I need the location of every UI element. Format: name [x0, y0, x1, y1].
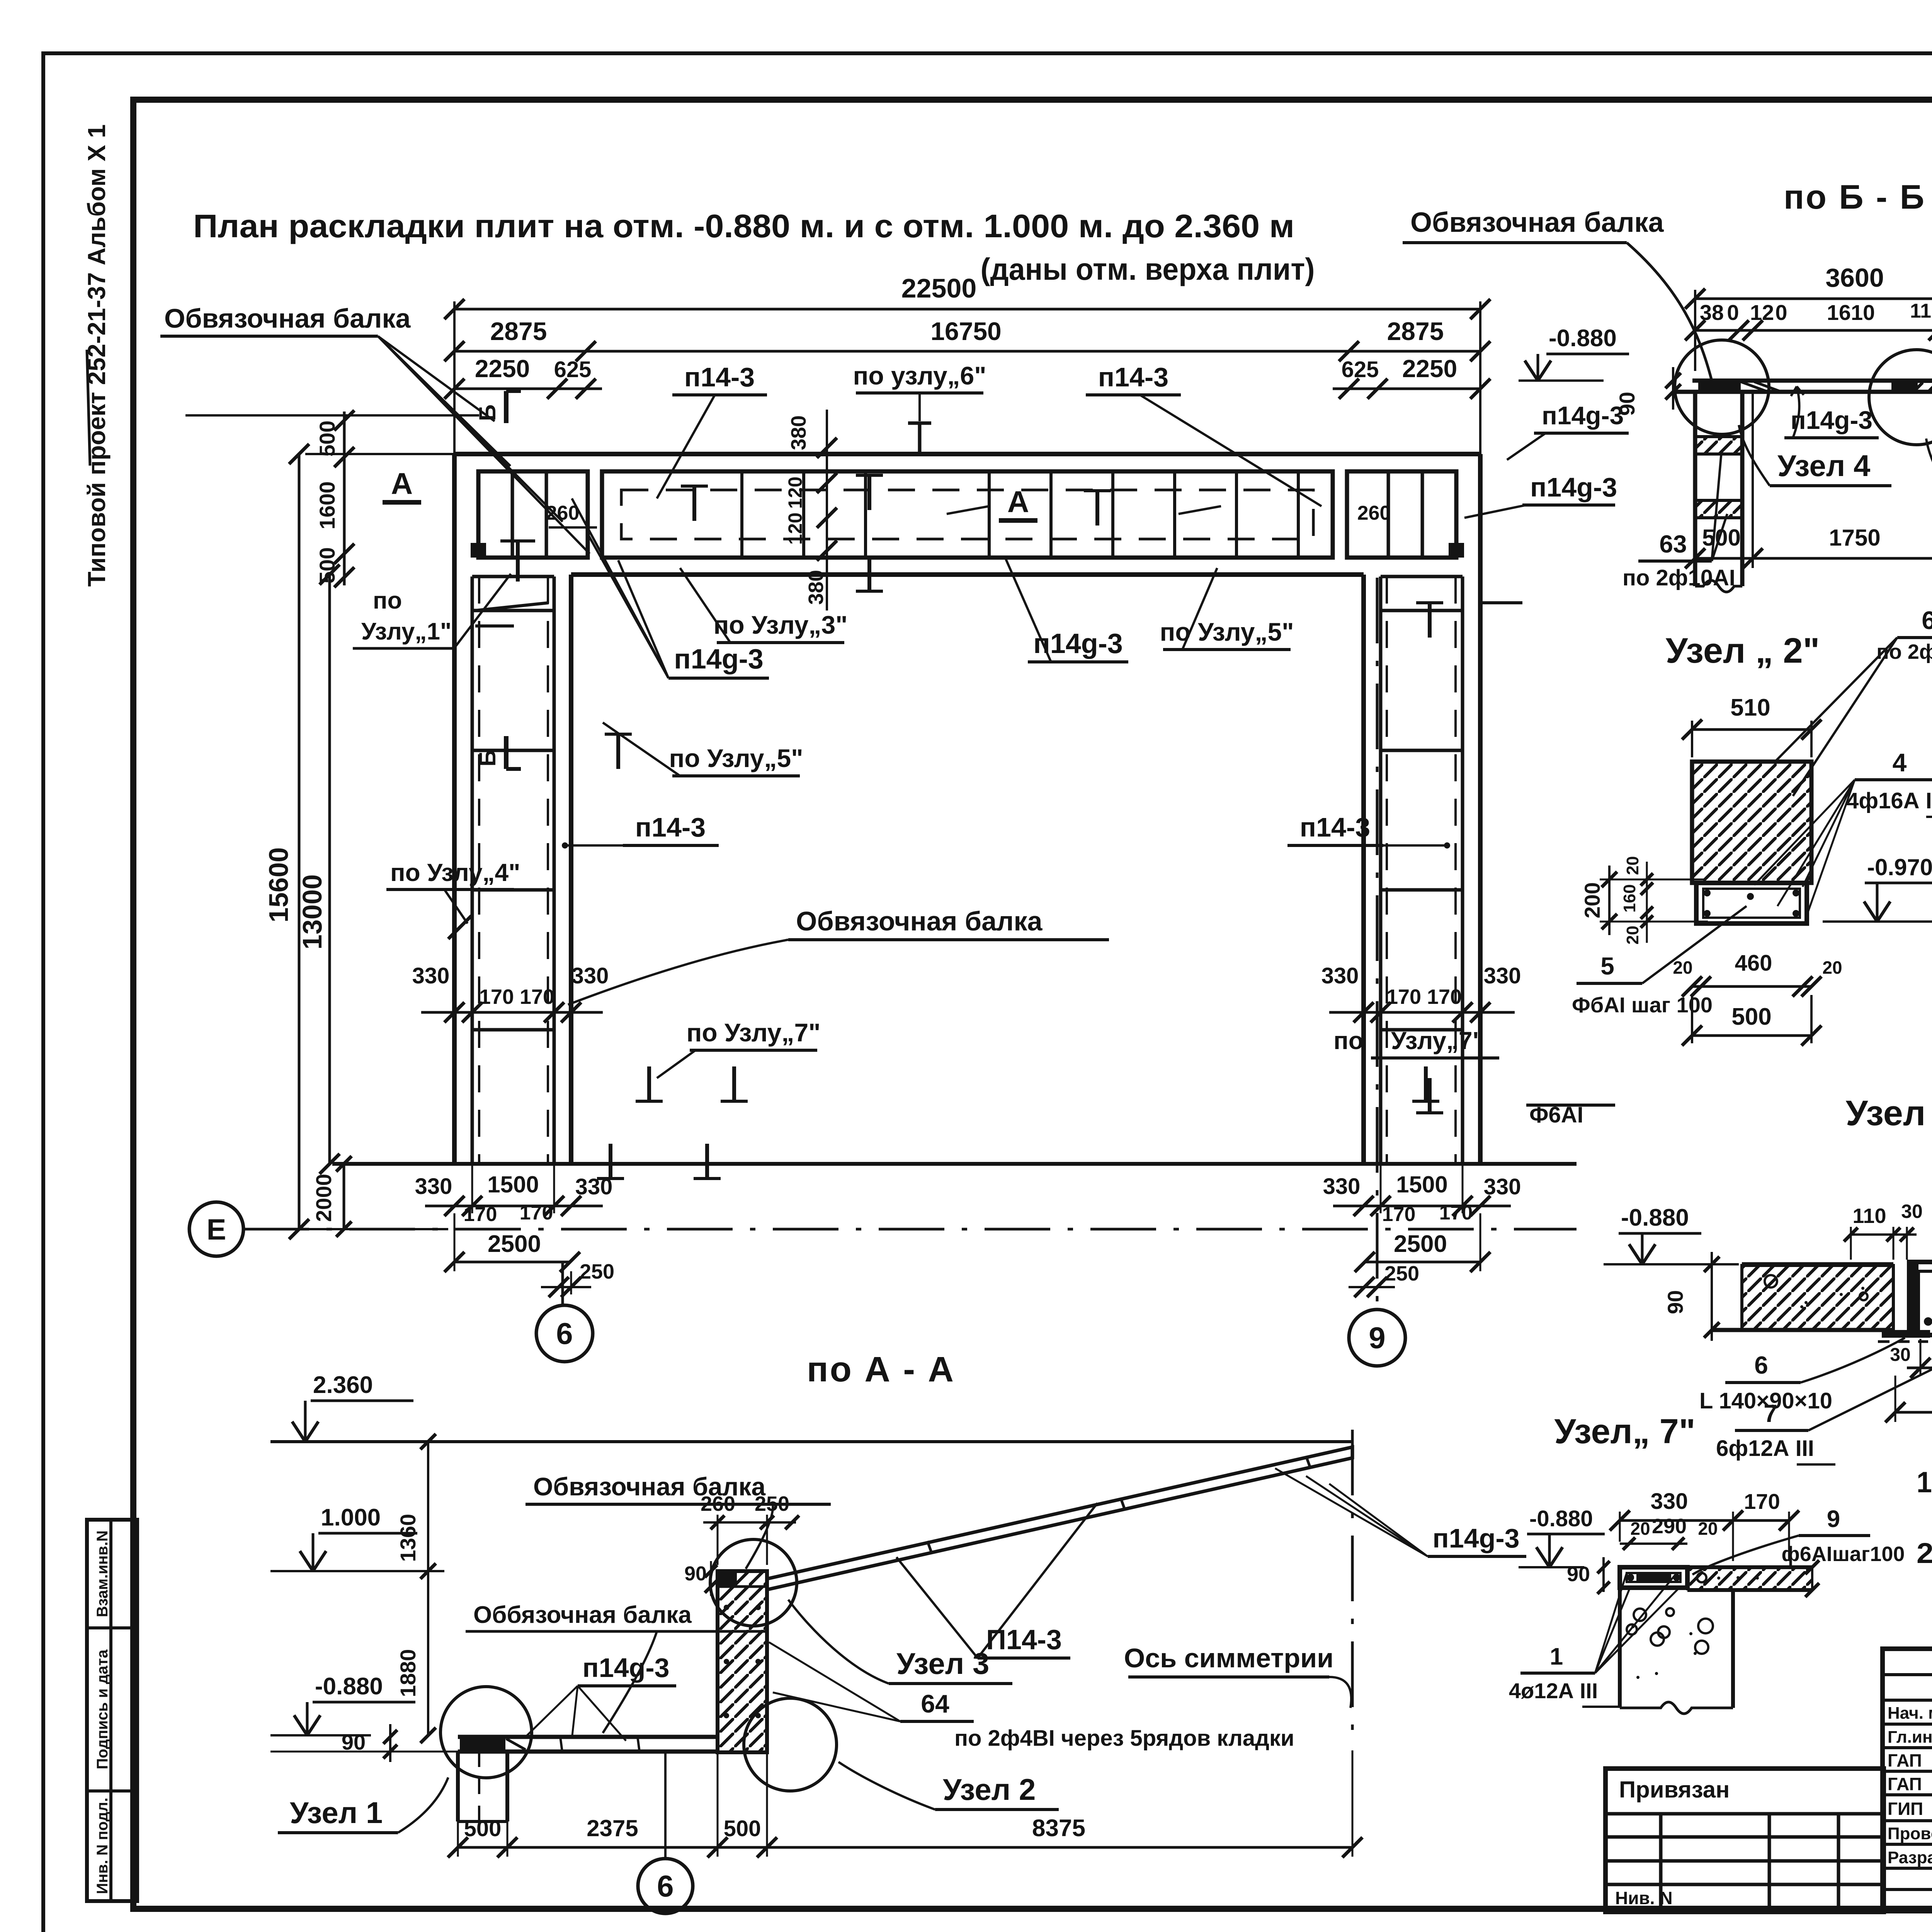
axis bubble E: [189, 1202, 243, 1256]
svg-text:6: 6: [556, 1316, 573, 1350]
svg-text:6ф12А III: 6ф12А III: [1716, 1436, 1814, 1461]
узел 7 dims 20-290-20: [1620, 1515, 1718, 1550]
svg-text:1500: 1500: [487, 1172, 539, 1197]
plan dim 2000 left: [311, 1156, 352, 1237]
plan dim 22500: [444, 273, 1490, 454]
svg-text:п14g-3: п14g-3: [1791, 406, 1872, 434]
узел 7 fraction 9 / ф6АIшаг100: [1692, 1506, 1905, 1575]
axis bubble 6 under А-А: [638, 1752, 693, 1913]
svg-text:Узел 4: Узел 4: [1777, 449, 1870, 483]
svg-text:4: 4: [1893, 748, 1907, 777]
svg-text:п14-3: п14-3: [1098, 362, 1168, 392]
примечание 2: [1917, 1537, 1932, 1569]
узел 5 title: [1846, 1094, 1932, 1133]
plan dim 2875-16750-2875: [444, 317, 1490, 361]
узел 2 left dims: [1580, 856, 1708, 945]
plan bottom dims left 330-1500-330: [415, 1164, 613, 1226]
А-А label Ось симметрии: [1124, 1643, 1351, 1708]
svg-text:1.000: 1.000: [321, 1504, 381, 1531]
svg-text:3600: 3600: [1825, 263, 1884, 293]
plan left extension line: [185, 414, 479, 417]
label Обвязочная балка top-left: [160, 303, 590, 554]
label по Узлу 5 right2: [1160, 568, 1294, 650]
svg-text:20: 20: [1630, 1519, 1650, 1539]
узел 4 circle on Б-Б: [1675, 340, 1769, 434]
svg-text:Б: Б: [474, 750, 500, 766]
Б-Б label Узел 4: [1739, 425, 1891, 486]
узел 2 fraction 64: [1774, 606, 1932, 796]
А-А label Узел 1: [278, 1777, 448, 1833]
label по узлу 6: [853, 361, 986, 456]
узел 3 fraction 64 lower: [1932, 889, 1932, 1033]
svg-text:63: 63: [1659, 530, 1687, 558]
svg-text:20: 20: [1673, 957, 1692, 978]
label по Узлу 3: [680, 568, 847, 643]
label Обвязочная балка mid: [568, 906, 1109, 1005]
svg-text:по узлу„6": по узлу„6": [853, 361, 986, 390]
Б-Б wall below: [1695, 392, 1742, 592]
svg-text:120: 120: [784, 476, 806, 509]
svg-text:5: 5: [1600, 952, 1614, 980]
section mark Б top: [474, 391, 521, 423]
svg-text:П14-3: П14-3: [986, 1624, 1062, 1655]
svg-text:по Узлу„3": по Узлу„3": [714, 611, 848, 639]
svg-text:200: 200: [1580, 882, 1604, 918]
svg-text:330: 330: [415, 1174, 452, 1199]
label по Узлу 5 left: [603, 723, 803, 776]
plan left dim 13000: [297, 565, 340, 1174]
узел 7 slab right: [1687, 1560, 1819, 1597]
svg-text:0: 0: [1727, 300, 1739, 325]
svg-text:Узел 2: Узел 2: [943, 1772, 1036, 1806]
svg-text:0: 0: [1775, 300, 1787, 325]
узел 5 dims 110-30: [1844, 1201, 1923, 1260]
svg-text:20: 20: [1822, 957, 1842, 978]
svg-text:500: 500: [1731, 1003, 1771, 1030]
А-А top line: [270, 1440, 1352, 1443]
А-А dim 1360: [396, 1434, 436, 1579]
svg-text:Взам.инв.N: Взам.инв.N: [94, 1531, 111, 1617]
svg-text:330: 330: [412, 963, 450, 988]
А-А label Обвязочная балка 2: [466, 1602, 769, 1733]
side text: Типовой проект 252-21-37 Альбом X1: [83, 124, 111, 587]
svg-text:64: 64: [921, 1689, 949, 1718]
svg-text:330: 330: [1323, 1174, 1361, 1199]
svg-text:п14g-3: п14g-3: [1542, 401, 1624, 430]
svg-text:Узел 3: Узел 3: [896, 1646, 989, 1680]
А-А dims 260-250: [701, 1492, 799, 1565]
svg-text:500: 500: [724, 1816, 761, 1841]
svg-text:2375: 2375: [587, 1815, 638, 1841]
svg-text:План раскладки плит на отм: План раскладки плит на отм. -0.880 м. и …: [193, 208, 1294, 244]
svg-text:1: 1: [1550, 1643, 1563, 1670]
svg-text:по Б - Б: по Б - Б: [1784, 178, 1926, 216]
А-А axis of symmetry line: [1351, 1430, 1354, 1743]
svg-text:Узел„ 7": Узел„ 7": [1554, 1412, 1695, 1451]
узел 5 left slab: [1712, 1264, 1893, 1330]
А-А left column below slab: [458, 1752, 507, 1821]
main title line 1: [193, 208, 1294, 244]
svg-text:ГАП: ГАП: [1888, 1774, 1922, 1794]
svg-text:по Узлу„5": по Узлу„5": [1160, 617, 1294, 646]
узел 5 dim 90 left: [1663, 1252, 1719, 1341]
label п14-3 right column: [1287, 812, 1450, 849]
узел 2 beam box: [1696, 883, 1807, 923]
plan right column mid dims 330-170-170-330: [1321, 963, 1521, 1022]
plan dim 2500 right: [1355, 1213, 1490, 1272]
svg-text:Оббязочная балка: Оббязочная балка: [473, 1602, 692, 1628]
svg-text:260: 260: [546, 502, 580, 524]
примечание 1 line 1: [1917, 1466, 1932, 1499]
plan left dim 15600: [264, 444, 454, 1239]
cell label Подпись и дата: [94, 1649, 111, 1769]
plan: left corner beam block: [478, 471, 588, 558]
svg-text:ф6АIшаг100: ф6АIшаг100: [1782, 1543, 1905, 1566]
А-А bottom dims: [448, 1750, 1362, 1857]
А-А elev 1.000: [300, 1504, 417, 1571]
svg-text:по Узлу„7": по Узлу„7": [687, 1018, 821, 1047]
plan dim 2500 left: [444, 1213, 580, 1272]
узел 5 fraction 6 / L140x90x10: [1699, 1338, 1905, 1413]
svg-text:2500: 2500: [1394, 1231, 1447, 1257]
svg-text:380: 380: [787, 415, 810, 450]
узел 3 circle on А-А: [710, 1539, 797, 1626]
section mark Б lower: [474, 736, 521, 769]
cell label Инв.N подл.: [94, 1798, 111, 1894]
А-А label Узел 2: [838, 1762, 1059, 1810]
узел 2 dims 20-460-20: [1673, 951, 1842, 997]
svg-text:170: 170: [1382, 1203, 1416, 1226]
узел 2 circle on А-А: [744, 1698, 837, 1791]
svg-text:ГИП: ГИП: [1888, 1799, 1923, 1819]
svg-text:Проверил: Проверил: [1888, 1824, 1932, 1843]
svg-text:п14-3: п14-3: [1300, 812, 1370, 842]
svg-text:30: 30: [1890, 1345, 1910, 1365]
plan: joint strip right 625: [1333, 471, 1347, 558]
svg-text:(даны отм. верха плит): (даны отм. верха плит): [981, 252, 1315, 286]
svg-text:Инв. N подл.: Инв. N подл.: [94, 1798, 111, 1894]
axis bubble 6 under plan: [536, 1262, 593, 1362]
svg-text:2875: 2875: [1387, 317, 1444, 345]
svg-text:510: 510: [1730, 694, 1770, 721]
А-А label п14g-3 left: [526, 1653, 676, 1741]
svg-text:п14g-3: п14g-3: [674, 644, 764, 675]
plan: bottom wall line: [332, 1162, 1577, 1166]
svg-text:22500: 22500: [901, 273, 977, 303]
А-А slab: [458, 1737, 718, 1752]
left form cells box: [87, 1520, 137, 1901]
svg-text:по: по: [1333, 1027, 1364, 1054]
узел 7 dims 330-170: [1610, 1489, 1799, 1561]
узел 2 dim 510: [1682, 694, 1821, 757]
plan dim 2250-625 left: [444, 355, 602, 399]
svg-text:250: 250: [755, 1492, 789, 1515]
узел 2 elev -0.970: [1823, 854, 1932, 922]
svg-text:170: 170: [464, 1203, 497, 1226]
узел 7 dim 90: [1567, 1557, 1610, 1594]
plan: wall inner line below band: [571, 572, 1364, 577]
svg-text:2. Выборка стали дана на: 2. Выборка стали дана на чертеже КС1-35: [1917, 1537, 1932, 1569]
svg-text:А: А: [391, 466, 413, 500]
узел 7 elev -0.880: [1519, 1506, 1605, 1567]
узел 7 column: [1620, 1588, 1733, 1714]
А-А label Узел 3: [788, 1600, 1012, 1684]
plan dim 250 left: [541, 1260, 614, 1297]
svg-text:460: 460: [1735, 951, 1772, 976]
plan: right corner beam block: [1347, 471, 1456, 558]
plan left dims 500-1600-500: [315, 410, 354, 587]
svg-text:64: 64: [1922, 606, 1932, 634]
svg-text:120: 120: [784, 512, 806, 544]
plan anchor symbols in band: [597, 486, 1443, 1179]
А-А label Обвязочная балка 1: [526, 1472, 831, 1569]
svg-text:30: 30: [1901, 1201, 1923, 1222]
svg-text:20: 20: [1698, 1519, 1718, 1539]
svg-text:1750: 1750: [1829, 525, 1880, 551]
section mark А mid: [999, 485, 1037, 520]
Б-Б label Узел 5: [1926, 439, 1932, 489]
А-А dim 90 left: [270, 1724, 458, 1762]
plan arrows in corner blocks: [475, 506, 1522, 626]
узел 7 beam box: [1620, 1567, 1687, 1588]
svg-text:2.360: 2.360: [313, 1372, 373, 1398]
svg-text:по 2ф4ВI через 5рядов: по 2ф4ВI через 5рядов: [1876, 640, 1932, 663]
А-А dim 90 at column top: [684, 1561, 717, 1596]
svg-text:-0.880: -0.880: [1529, 1506, 1593, 1531]
Б-Б dim chain 380-120-1610-110-30-610-740: [1685, 298, 1932, 340]
svg-text:250: 250: [1384, 1262, 1419, 1285]
label п14g-3 right outside upper: [1507, 401, 1629, 460]
А-А label П14-3: [896, 1503, 1097, 1658]
Б-Б dim 3600: [1685, 263, 1932, 371]
svg-text:Разработ: Разработ: [1888, 1848, 1932, 1867]
svg-text:9: 9: [1827, 1506, 1840, 1532]
signature table texts: [1888, 1704, 1932, 1867]
svg-text:625: 625: [1342, 357, 1379, 382]
svg-text:6: 6: [657, 1869, 673, 1903]
svg-text:Привязан: Привязан: [1619, 1777, 1730, 1803]
узел 5 circle on Б-Б: [1869, 350, 1932, 445]
Б-Б slab: [1673, 371, 1932, 401]
svg-text:2000: 2000: [311, 1174, 336, 1222]
svg-text:7: 7: [1764, 1400, 1777, 1427]
svg-text:п14-3: п14-3: [635, 812, 706, 842]
label п14g-3 below corner: [572, 498, 769, 678]
svg-text:260: 260: [701, 1492, 735, 1515]
узел 7 fraction 1 / 4ф12АIII: [1509, 1573, 1681, 1707]
svg-text:по Узлу„4": по Узлу„4": [390, 859, 520, 886]
А-А sloped plate: [767, 1447, 1352, 1590]
svg-text:по Узлу„5": по Узлу„5": [669, 744, 803, 772]
узел 5 plate section: [1907, 1262, 1932, 1335]
svg-text:-0.970: -0.970: [1867, 854, 1932, 880]
svg-text:110: 110: [1852, 1204, 1886, 1228]
label п14-3 left column: [562, 812, 719, 849]
svg-text:90: 90: [1663, 1290, 1687, 1314]
А-А elev 2.360: [270, 1372, 413, 1442]
svg-text:20: 20: [1623, 856, 1642, 875]
узел 5 angle L140x90x10: [1878, 1330, 1930, 1342]
svg-text:500: 500: [315, 547, 339, 583]
svg-text:290: 290: [1652, 1515, 1687, 1538]
привязан table: [1605, 1769, 1884, 1912]
label по Узлу 7 left: [636, 1018, 820, 1101]
svg-text:п14g-3: п14g-3: [1530, 472, 1617, 502]
А-А dim 1880: [396, 1571, 436, 1743]
узел 5 elev -0.880 left: [1604, 1204, 1739, 1264]
svg-text:12: 12: [1750, 300, 1774, 325]
plan rotated dims 380/120/120/380: [784, 410, 883, 611]
А-А central column: [718, 1571, 767, 1752]
svg-text:500: 500: [464, 1816, 502, 1841]
svg-text:1360: 1360: [396, 1514, 420, 1562]
plan: right column wall: [1364, 454, 1480, 1164]
узел 2 fraction 4 / 4Ф16АIII: [1754, 748, 1932, 920]
узел 5 dim 550-30: [1890, 1335, 1932, 1378]
svg-text:1500: 1500: [1396, 1172, 1447, 1197]
svg-text:по 2ф4ВI через 5рядов кладки: по 2ф4ВI через 5рядов кладки: [954, 1726, 1294, 1751]
plan dim 625-2250 right: [1333, 355, 1490, 399]
узел 2 fraction 5 / ФбАI шаг 100: [1572, 906, 1747, 1017]
svg-text:2250: 2250: [1402, 355, 1457, 383]
svg-text:Узлу„7": Узлу„7": [1391, 1027, 1484, 1054]
svg-text:1600: 1600: [315, 481, 339, 530]
svg-text:Узлу„1": Узлу„1": [361, 618, 451, 645]
svg-text:500: 500: [315, 420, 339, 456]
label по Узлу 7 right: [1333, 1027, 1499, 1113]
svg-text:13000: 13000: [297, 874, 327, 950]
А-А title: [807, 1350, 955, 1389]
label п14-3 band right: [1086, 362, 1321, 506]
svg-text:1610: 1610: [1827, 300, 1875, 325]
section mark А left: [383, 466, 421, 502]
svg-text:-0.880: -0.880: [1549, 325, 1617, 352]
svg-text:А: А: [1007, 485, 1029, 519]
svg-text:Обвязочная балка: Обвязочная балка: [164, 303, 411, 333]
plan dim 250 right: [1349, 1262, 1419, 1297]
svg-text:по: по: [373, 587, 402, 614]
svg-text:250: 250: [580, 1260, 614, 1283]
svg-text:8375: 8375: [1032, 1815, 1085, 1842]
svg-text:Нач. маст.: Нач. маст.: [1888, 1704, 1932, 1723]
svg-text:-0.880: -0.880: [1621, 1204, 1689, 1231]
svg-text:90: 90: [1567, 1563, 1590, 1586]
plan bottom dims right 330-1500-330: [1323, 1164, 1521, 1226]
svg-text:16750: 16750: [930, 317, 1002, 345]
А-А ref line 1.000: [270, 1570, 444, 1572]
узел 2 dim 500: [1682, 995, 1821, 1046]
svg-text:170: 170: [1439, 1202, 1473, 1224]
label по Узлу 1: [353, 541, 535, 648]
svg-text:20: 20: [1623, 926, 1642, 945]
Б-Б elev -0.880: [1519, 325, 1629, 381]
svg-text:Узел „ 2": Узел „ 2": [1666, 631, 1820, 670]
plan: middle plate band П14-3: [602, 471, 1333, 558]
svg-text:2875: 2875: [490, 317, 547, 345]
svg-text:Обвязочная балка: Обвязочная балка: [1410, 207, 1664, 238]
узел 1 circle on А-А: [440, 1687, 532, 1778]
plan: top wall outer line: [454, 452, 1480, 456]
svg-text:330: 330: [571, 963, 609, 988]
label Обвязочная балка (to Б-Б): [1403, 207, 1712, 381]
узел 2 masonry: [1692, 762, 1811, 883]
signature table: [1883, 1649, 1932, 1911]
svg-text:Узел: Узел: [1846, 1094, 1926, 1133]
svg-text:170: 170: [520, 985, 554, 1009]
svg-text:2500: 2500: [488, 1231, 541, 1257]
axis bubble 9 under plan: [1349, 578, 1405, 1366]
svg-text:380: 380: [804, 570, 828, 605]
main title line 2: [981, 252, 1315, 286]
svg-text:Узел 1: Узел 1: [290, 1796, 383, 1830]
svg-text:330: 330: [1484, 1174, 1521, 1199]
plan small dim 260 right: [1357, 502, 1464, 558]
svg-text:1. Спецификация арматуы на: 1. Спецификация арматуы на Узлы: [1917, 1466, 1932, 1499]
svg-text:330: 330: [1484, 963, 1521, 988]
svg-text:ГАП: ГАП: [1888, 1750, 1922, 1770]
svg-text:п14-3: п14-3: [684, 362, 755, 392]
svg-text:170: 170: [1427, 985, 1462, 1009]
svg-text:4ø12А III: 4ø12А III: [1509, 1679, 1598, 1703]
узел 5 dim 610: [1885, 1376, 1932, 1422]
svg-text:170: 170: [1386, 985, 1421, 1009]
plan small dim 260 left: [471, 502, 597, 558]
svg-text:330: 330: [1651, 1489, 1688, 1514]
svg-text:Нив. N: Нив. N: [1615, 1888, 1673, 1908]
plan: axis E dash-dot line: [243, 1228, 1577, 1231]
svg-text:Ось симметрии: Ось симметрии: [1124, 1643, 1334, 1673]
svg-text:Гл.инж.М.: Гл.инж.М.: [1888, 1728, 1932, 1747]
svg-text:по 2ф10АI: по 2ф10АI: [1622, 565, 1735, 590]
Б-Б dim 90: [1615, 367, 1681, 416]
А-А elev -0.880: [270, 1673, 415, 1735]
svg-text:Е: Е: [207, 1213, 226, 1246]
svg-text:6: 6: [1754, 1351, 1768, 1379]
Б-Б bottom dims 500-1750: [1685, 392, 1932, 586]
svg-text:90: 90: [684, 1563, 707, 1585]
узел 7 title: [1554, 1412, 1695, 1451]
cell label Взам.инв.N: [94, 1531, 111, 1617]
plan: joint strip left 625: [588, 471, 602, 558]
label п14g-3 right outside: [1464, 472, 1617, 518]
plan left column mid dims 330-170-170-330: [412, 963, 609, 1022]
svg-text:170: 170: [520, 1202, 553, 1224]
svg-text:330: 330: [1321, 963, 1359, 988]
svg-text:4ф16А III: 4ф16А III: [1846, 788, 1932, 813]
А-А fraction 64: [769, 1642, 1294, 1751]
svg-text:90: 90: [1615, 392, 1639, 416]
label п14g-3 mid band: [1005, 556, 1128, 662]
svg-text:260: 260: [1357, 502, 1391, 524]
узел 5 fraction 7 / 6ф12АIII: [1716, 1333, 1932, 1464]
section Б-Б title: [1784, 178, 1926, 216]
svg-text:Подпись и дата: Подпись и дата: [94, 1649, 111, 1769]
svg-text:9: 9: [1369, 1321, 1385, 1355]
svg-text:38: 38: [1700, 300, 1724, 325]
svg-text:110: 110: [1910, 300, 1932, 322]
Б-Б label п14g-3 mid: [1784, 386, 1879, 438]
svg-text:Обвязочная балка: Обвязочная балка: [796, 906, 1043, 936]
svg-text:160: 160: [1620, 884, 1639, 912]
svg-text:п14g-3: п14g-3: [1432, 1523, 1519, 1553]
А-А label п14g-3 right: [1275, 1468, 1526, 1556]
svg-text:2250: 2250: [475, 355, 530, 383]
svg-text:1880: 1880: [396, 1649, 420, 1697]
узел 2 title: [1666, 631, 1820, 670]
label по Узлу 4: [386, 859, 520, 939]
label п14-3 band left: [657, 362, 767, 498]
svg-text:п14g-3: п14g-3: [582, 1653, 669, 1683]
